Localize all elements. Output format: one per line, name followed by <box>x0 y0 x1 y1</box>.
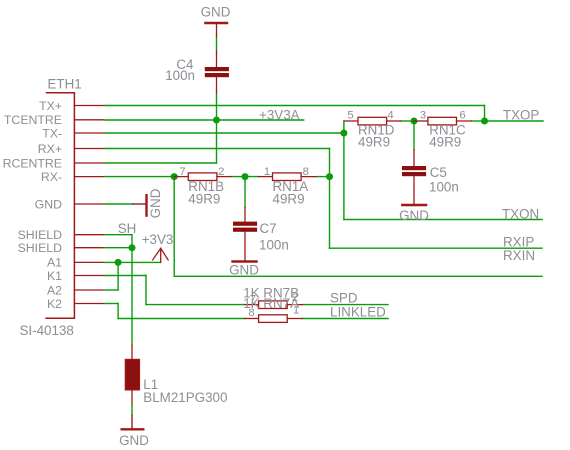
svg-text:LINKLED: LINKLED <box>330 305 386 320</box>
svg-text:TX-: TX- <box>42 126 62 140</box>
svg-text:RN7A: RN7A <box>263 296 299 311</box>
svg-text:SPD: SPD <box>330 291 358 306</box>
wire K1 vertical to SPD row <box>145 276 147 305</box>
wire net RXIP <box>330 247 543 249</box>
pin GND <box>74 203 104 205</box>
svg-text:6: 6 <box>459 109 465 121</box>
wire net TX- horizontal <box>104 132 344 134</box>
junction A1 <box>115 259 122 266</box>
pin TX- <box>74 132 104 134</box>
junction TXOP <box>481 118 488 125</box>
svg-text:49R9: 49R9 <box>429 135 461 150</box>
wire K2 vertical to LINKLED row <box>117 304 119 319</box>
supply symbol +3V3 arrow <box>153 248 168 262</box>
svg-text:K1: K1 <box>47 269 62 283</box>
capacitor C5 <box>402 150 426 205</box>
svg-text:100n: 100n <box>429 180 459 195</box>
ground symbol below C5 <box>402 204 426 206</box>
capacitor C7 <box>233 208 257 262</box>
wire C7 junction down <box>244 177 246 208</box>
wire C4 gnd segment <box>216 37 218 52</box>
resistor RN1D <box>344 117 401 125</box>
pin A1 <box>74 261 104 263</box>
pin K1 <box>74 275 104 277</box>
wire net GND from connector <box>104 203 133 205</box>
pin TX+ <box>74 105 104 107</box>
junction TCENTRE/C4 <box>213 117 220 124</box>
capacitor C4 <box>205 51 229 93</box>
pin SHIELD 1 <box>74 234 104 236</box>
wire net RX+ horizontal <box>104 148 330 150</box>
svg-text:TCENTRE: TCENTRE <box>4 113 62 127</box>
wire net RXIN <box>174 275 542 277</box>
svg-text:TXON: TXON <box>502 206 539 221</box>
svg-text:SHIELD: SHIELD <box>18 241 63 255</box>
pin K2 <box>74 303 104 305</box>
junction SHIELD <box>129 244 136 251</box>
wire net SHIELD2 horizontal <box>104 247 132 249</box>
svg-text:49R9: 49R9 <box>188 191 220 206</box>
wire TX+ vertical down to TXOP <box>484 106 486 122</box>
wire net TXOP <box>485 120 544 122</box>
wire net K1 horizontal <box>104 275 146 277</box>
ground symbol below C7 <box>233 260 257 262</box>
resistor RN1A <box>259 173 316 181</box>
svg-text:49R9: 49R9 <box>273 191 305 206</box>
wire LINKLED right of RN7A <box>302 318 388 320</box>
wire A1 vertical to A2 <box>117 262 119 290</box>
svg-text:1K: 1K <box>243 296 259 311</box>
junction TX-/TXON <box>340 130 347 137</box>
pin TCENTRE <box>74 119 104 121</box>
svg-text:5: 5 <box>347 109 353 121</box>
connector ETH1 body <box>46 93 74 319</box>
svg-text:100n: 100n <box>165 68 195 83</box>
wire net A2 horizontal <box>104 289 118 291</box>
svg-text:SI-40138: SI-40138 <box>20 323 74 338</box>
svg-text:100n: 100n <box>259 237 289 252</box>
svg-text:A2: A2 <box>47 283 62 297</box>
svg-text:GND: GND <box>229 262 259 277</box>
svg-text:TXOP: TXOP <box>503 108 540 123</box>
wire net TCENTRE/+3V3A horizontal <box>104 119 304 121</box>
wire net SHIELD vertical <box>131 235 133 346</box>
svg-text:GND: GND <box>119 433 149 448</box>
wire net SHIELD1 horizontal <box>104 234 132 236</box>
pin SHIELD 2 <box>74 247 104 249</box>
svg-text:RXIN: RXIN <box>503 248 535 263</box>
svg-text:GND: GND <box>148 188 163 218</box>
svg-text:8: 8 <box>303 166 309 178</box>
svg-text:TX+: TX+ <box>39 99 62 113</box>
wire RN1D pin4 to junction <box>401 120 414 122</box>
pin RCENTRE <box>74 162 104 164</box>
svg-text:RCENTRE: RCENTRE <box>3 156 62 170</box>
svg-text:4: 4 <box>387 109 393 121</box>
wire RX- between RN1B and RN1A <box>231 176 259 178</box>
wire net TXON <box>344 219 542 221</box>
svg-text:RX+: RX+ <box>38 142 62 156</box>
ground symbol below L1 <box>122 415 144 429</box>
svg-text:1: 1 <box>264 166 270 178</box>
wire net RX- horizontal <box>104 176 174 178</box>
wire SPD right of RN7B <box>302 304 388 306</box>
wire RN1C pin6 to TXOP junction <box>471 120 484 122</box>
wire RXIN vertical <box>173 177 175 277</box>
wire net K2 horizontal <box>104 303 118 305</box>
wire net TX+ horizontal <box>104 105 485 107</box>
pin RX+ <box>74 148 104 150</box>
wire C5 junction down <box>413 121 415 150</box>
junction C5 top <box>411 118 418 125</box>
wire LINKLED row left of RN7A <box>118 318 245 320</box>
svg-text:RX-: RX- <box>41 170 62 184</box>
svg-text:SH: SH <box>118 221 137 236</box>
junction RN1A pin8 <box>326 173 333 180</box>
wire net RCENTRE vertical to TCENTRE <box>216 93 218 163</box>
svg-text:3: 3 <box>420 109 426 121</box>
wire L1 bottom to ground <box>131 404 133 415</box>
wire net RCENTRE horizontal <box>104 162 217 164</box>
wire SPD row left of RN7B <box>146 304 245 306</box>
ground symbol at connector GND pin (rotated) <box>133 195 147 215</box>
svg-text:K2: K2 <box>47 297 62 311</box>
svg-text:49R9: 49R9 <box>358 135 390 150</box>
ground symbol above C4 <box>205 23 227 37</box>
junction RX-/RXIN <box>171 173 178 180</box>
svg-text:7: 7 <box>179 166 185 178</box>
resistor RN1C <box>414 117 471 125</box>
svg-text:GND: GND <box>399 208 429 223</box>
wire net A1 to +3V3 <box>104 261 161 263</box>
svg-text:C7: C7 <box>260 221 277 236</box>
pin RX- <box>74 176 104 178</box>
inductor L1 ferrite bead <box>125 345 139 404</box>
svg-text:+3V3: +3V3 <box>142 232 174 247</box>
svg-text:SHIELD: SHIELD <box>18 228 63 242</box>
svg-text:+3V3A: +3V3A <box>259 108 300 123</box>
wire RX+ vertical to RXIP <box>329 149 331 249</box>
resistor RN1B <box>174 173 231 181</box>
svg-text:GND: GND <box>35 197 62 211</box>
svg-text:ETH1: ETH1 <box>48 77 82 92</box>
svg-text:GND: GND <box>201 4 231 19</box>
wire TXON vertical from RN1D pin5 <box>343 121 345 220</box>
resistor RN7A <box>245 315 303 323</box>
svg-text:C5: C5 <box>430 165 447 180</box>
wire RX- after RN1A pin8 <box>316 176 330 178</box>
svg-text:A1: A1 <box>47 256 62 270</box>
resistor RN7B <box>245 301 303 309</box>
pin A2 <box>74 289 104 291</box>
junction C7 top <box>242 173 249 180</box>
svg-text:2: 2 <box>218 166 224 178</box>
svg-text:BLM21PG300: BLM21PG300 <box>143 390 227 405</box>
